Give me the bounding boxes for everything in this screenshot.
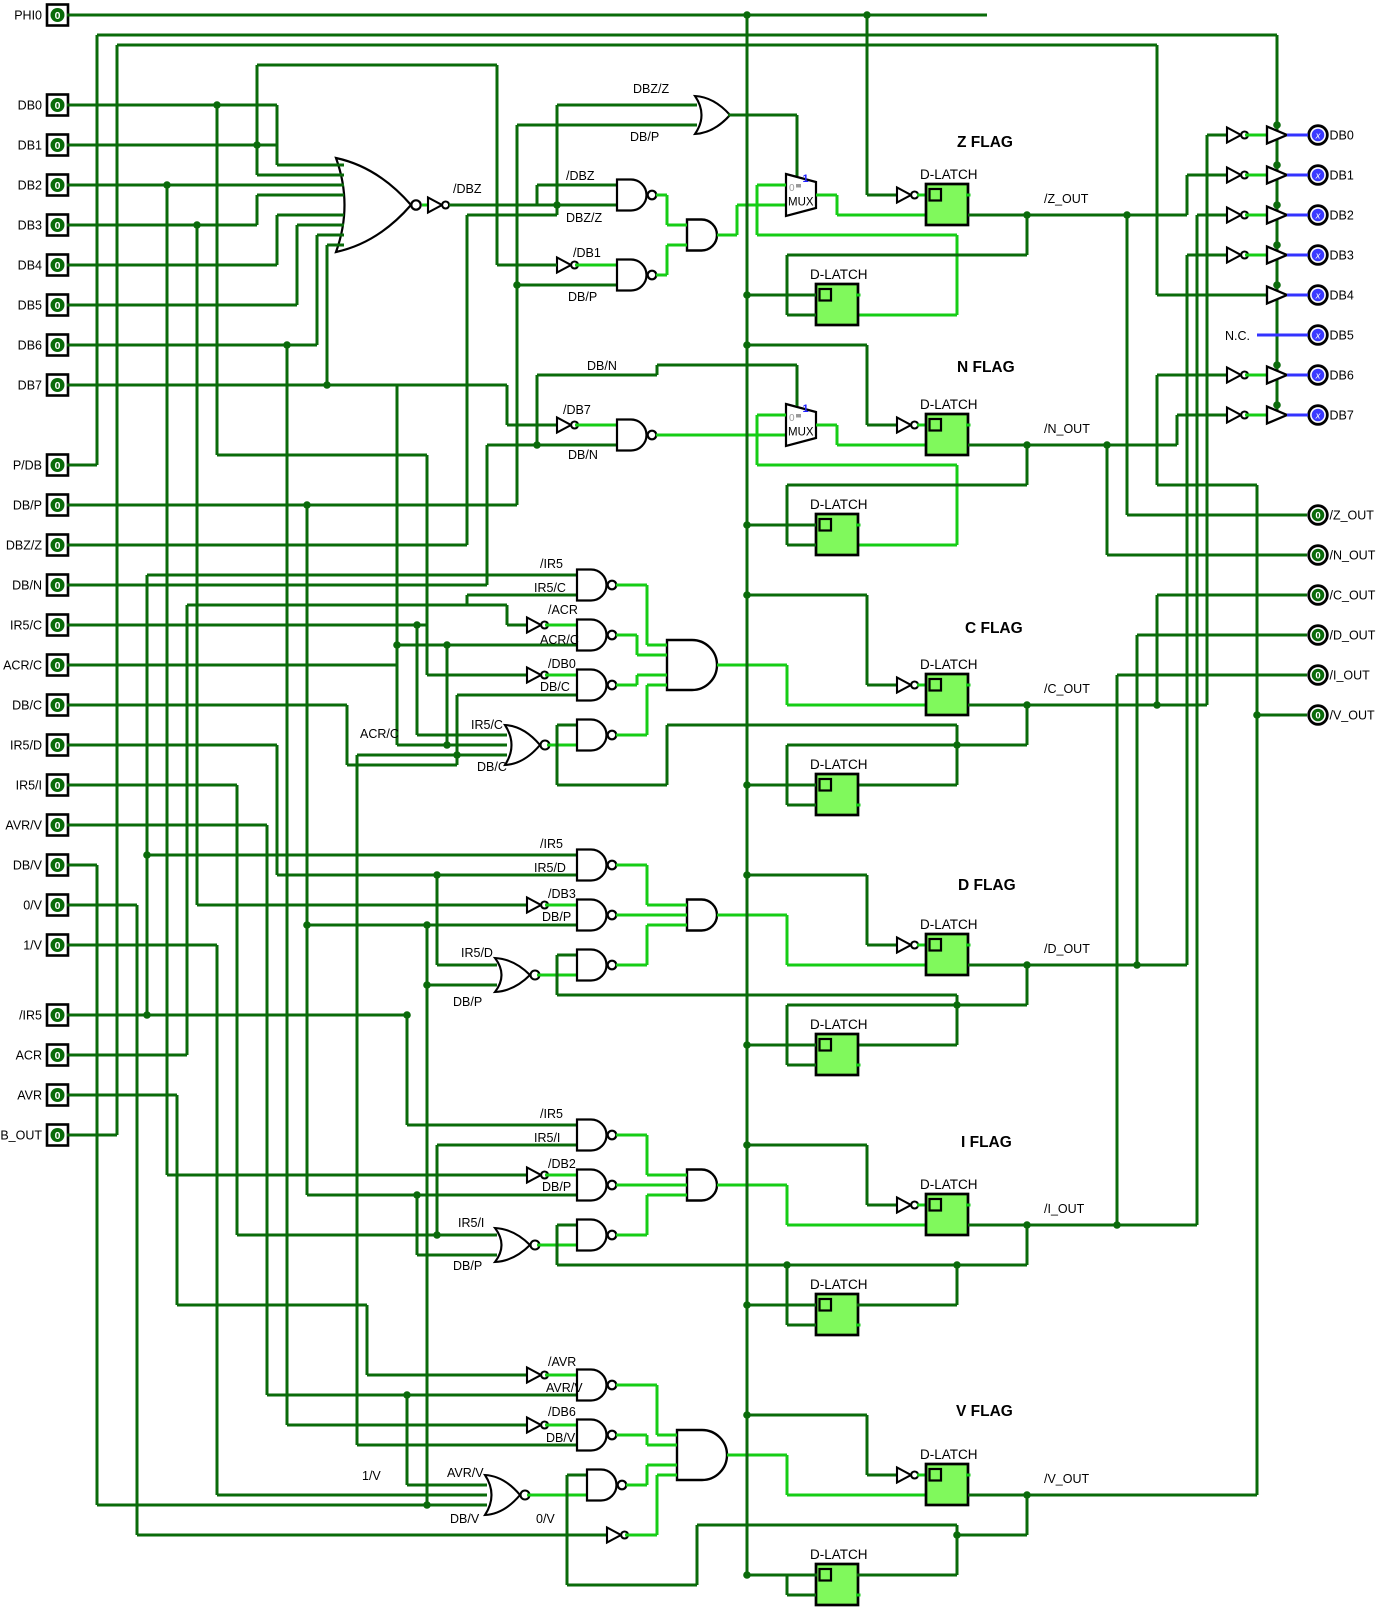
wire DB/C xyxy=(67,704,347,707)
input pin DBZ/Z xyxy=(6,535,68,556)
node Z pin branch xyxy=(1123,211,1131,219)
output pin DB3 xyxy=(1309,246,1354,265)
wire AVR row2 xyxy=(177,1304,367,1307)
svg-text:/AVR: /AVR xyxy=(548,1355,576,1369)
tri-state buffer output buffer DB xyxy=(1267,247,1287,264)
svg-text:/DBZ: /DBZ xyxy=(453,182,482,196)
NOR gate U-V3 NOR xyxy=(485,1475,520,1515)
svg-text:D-LATCH: D-LATCH xyxy=(920,1447,978,1462)
svg-text:0: 0 xyxy=(55,180,61,192)
input pin 1/V xyxy=(23,935,68,956)
svg-text:0: 0 xyxy=(55,460,61,472)
wire AVR to inv xyxy=(367,1374,527,1377)
wire V loop riser xyxy=(566,1475,569,1585)
node trunk Z2D xyxy=(743,291,751,299)
wire AND in1 xyxy=(647,904,687,907)
wire Z MUX select xyxy=(796,115,799,176)
tri-state buffer output buffer DB xyxy=(1267,287,1287,304)
node DB7 branch xyxy=(323,381,331,389)
input pin PHI0 xyxy=(14,5,68,26)
wire 1/V riser xyxy=(216,945,219,1495)
svg-text:/V_OUT: /V_OUT xyxy=(1044,1472,1090,1486)
wire xyxy=(656,1475,659,1535)
wire D latch2 out xyxy=(857,1044,957,1047)
wire C fb row xyxy=(787,744,1027,747)
wire DB/C rise xyxy=(456,695,459,765)
input pin DB5 xyxy=(18,295,68,316)
output pin DB0 xyxy=(1309,126,1354,145)
wire NOR in2 row xyxy=(397,744,507,747)
wire DB7 inv in xyxy=(1177,414,1227,417)
wire xyxy=(836,425,839,445)
svg-text:/DBZ: /DBZ xyxy=(566,169,595,183)
svg-text:V FLAG: V FLAG xyxy=(956,1403,1013,1420)
wire I NANDa out xyxy=(616,1134,647,1137)
svg-text:DB/N: DB/N xyxy=(568,448,598,462)
node DB2 branch xyxy=(163,181,171,189)
input pin IR5/I xyxy=(16,775,68,796)
wire xyxy=(646,865,649,905)
wire DB5 xyxy=(67,304,297,307)
wire D fb riser xyxy=(786,1005,789,1065)
wire NOR out xyxy=(547,744,577,747)
svg-text:AVR: AVR xyxy=(17,1089,42,1103)
svg-text:ACR/C: ACR/C xyxy=(540,633,579,647)
wire N clock row xyxy=(747,344,867,347)
wire AVR xyxy=(67,1094,177,1097)
wire V latch EN xyxy=(787,1494,926,1497)
wire C clock riser xyxy=(866,595,869,685)
node trunk N xyxy=(743,341,751,349)
wire NAND1 in1 xyxy=(537,184,617,187)
node enable tap xyxy=(1273,281,1281,289)
wire N hold riser2 xyxy=(956,465,959,545)
wire V NANDb out xyxy=(616,1434,647,1437)
wire DB0 to NOR xyxy=(276,105,279,165)
wire NAND-d in1 xyxy=(557,954,577,957)
wire buffer to pin xyxy=(1287,214,1308,217)
node D pin branch xyxy=(1133,961,1141,969)
svg-text:0: 0 xyxy=(55,700,61,712)
D-LATCH N2 xyxy=(810,497,868,555)
wire DB/C drop xyxy=(346,705,349,765)
wire 0/V out xyxy=(625,1534,657,1537)
svg-text:IR5/I: IR5/I xyxy=(16,779,42,793)
inverter output inverter DB xyxy=(1227,408,1241,423)
wire NOR8 input stub xyxy=(337,164,344,167)
wire DBZ/Z to NAND xyxy=(557,204,617,207)
wire xyxy=(786,1455,789,1495)
NOR gate U-I3 NOR xyxy=(495,1228,530,1262)
wire IR5/D drop xyxy=(276,745,279,875)
wire xyxy=(646,1465,649,1485)
wire DB0 riser xyxy=(216,105,219,455)
wire DB2 xyxy=(67,184,337,187)
wire OR in1 xyxy=(557,104,697,107)
svg-text:0/V: 0/V xyxy=(23,899,42,913)
svg-text:DB7: DB7 xyxy=(18,379,42,393)
wire DB2 inv in xyxy=(1197,214,1227,217)
wire N hold row xyxy=(757,464,957,467)
wire inv to buffer xyxy=(1245,174,1267,177)
svg-text:0: 0 xyxy=(789,413,795,424)
wire D latch2 EN xyxy=(787,1064,816,1067)
wire V latch2 EN xyxy=(787,1594,816,1597)
NAND gate U-I4 hold NAND xyxy=(577,1220,607,1251)
wire IR5 link xyxy=(436,1145,439,1235)
wire DB7 to inv xyxy=(507,424,557,427)
svg-text:0: 0 xyxy=(55,900,61,912)
node C pin branch xyxy=(1153,701,1161,709)
svg-text:0: 0 xyxy=(55,380,61,392)
wire DB/N sel jog xyxy=(537,374,657,377)
wire I latch EN xyxy=(787,1224,926,1227)
node N fb xyxy=(1023,441,1031,449)
wire IR5/C jog row xyxy=(187,604,507,607)
svg-text:/Z_OUT: /Z_OUT xyxy=(1044,192,1089,206)
wire V latch2 D row xyxy=(747,1574,817,1577)
wire I latch2 out xyxy=(857,1304,957,1307)
AND gate U-D5 AND xyxy=(687,900,717,931)
wire DBZ/Z riser xyxy=(466,215,469,545)
wire xyxy=(666,195,669,225)
svg-text:DB/P: DB/P xyxy=(542,910,571,924)
NAND gate U-V1 /AVR&AVR/V xyxy=(577,1370,607,1401)
wire OR-in riser xyxy=(556,105,559,215)
wire inv to buffer xyxy=(1245,414,1267,417)
wire /N_OUT row xyxy=(968,444,1177,447)
wire V fb drop xyxy=(1026,1495,1029,1535)
wire AND in1 xyxy=(647,1174,687,1177)
svg-text:IR5/C: IR5/C xyxy=(534,581,566,595)
node DB/P-D xyxy=(303,921,311,929)
svg-text:AVR/V: AVR/V xyxy=(447,1466,484,1480)
D-LATCH Z2 xyxy=(810,267,868,325)
wire DB1 link riser xyxy=(256,65,259,175)
wire IR5/C to NOR xyxy=(416,625,419,735)
wire B_OUT xyxy=(67,1134,117,1137)
svg-text:IR5/C: IR5/C xyxy=(471,718,503,732)
node DB0 branch xyxy=(213,101,221,109)
NAND gate U-C3 /DB0&DB/C xyxy=(577,670,607,701)
wire IR5/D xyxy=(67,744,277,747)
node trunk V2D xyxy=(743,1571,751,1579)
wire DB/P lower riser xyxy=(306,505,309,1195)
wire /Z_OUT pin row xyxy=(1127,514,1307,517)
wire DBZ/Z xyxy=(67,544,467,547)
NAND gate U-Z1 /DBZ&DBZ/Z xyxy=(617,180,646,211)
wire DB4 to NOR xyxy=(276,215,279,265)
output pin DB5 xyxy=(1309,326,1354,345)
output pin /Z_OUT xyxy=(1309,506,1375,525)
node PHI0/Z-clock xyxy=(863,11,871,19)
wire inv to buffer xyxy=(1245,214,1267,217)
output pin DB7 xyxy=(1309,406,1354,425)
wire DB/P riser xyxy=(516,125,519,505)
AND gate U-Z3 AND xyxy=(687,220,717,251)
wire NOR8 input stub xyxy=(337,244,344,247)
wire N latch2 EN xyxy=(787,544,816,547)
input pin DB/C xyxy=(12,695,68,716)
node I fb xyxy=(1023,1221,1031,1229)
wire to C inverter xyxy=(867,684,897,687)
wire NOR8 input stub xyxy=(337,174,344,177)
svg-text:DB/V: DB/V xyxy=(450,1512,480,1526)
wire C latch EN xyxy=(787,704,926,707)
wire D AND out xyxy=(717,914,787,917)
svg-text:/V_OUT: /V_OUT xyxy=(1330,709,1376,723)
wire /IR5 I row xyxy=(407,1124,577,1127)
wire DB5 to NOR xyxy=(296,225,299,305)
wire DB7 jog xyxy=(506,385,509,425)
wire xyxy=(836,195,839,215)
svg-text:/D_OUT: /D_OUT xyxy=(1044,942,1090,956)
svg-text:0/V: 0/V xyxy=(536,1512,555,1526)
wire PHI0 row xyxy=(67,14,987,17)
wire to D inverter xyxy=(867,944,897,947)
svg-text:DB/N: DB/N xyxy=(12,579,42,593)
wire AVR/V to NOR xyxy=(407,1484,487,1487)
wire NAND1 out xyxy=(656,194,667,197)
wire ACR/C row xyxy=(397,644,577,647)
svg-text:0: 0 xyxy=(55,780,61,792)
node /IR5 branch xyxy=(143,1011,151,1019)
wire N latch EN xyxy=(837,444,926,447)
wire NOR in4 xyxy=(257,194,337,197)
wire AND in3 xyxy=(637,674,667,677)
svg-text:DB1: DB1 xyxy=(18,139,42,153)
svg-text:D-LATCH: D-LATCH xyxy=(810,1017,868,1032)
wire IR5/I xyxy=(67,784,237,787)
node enable tap xyxy=(1273,201,1281,209)
wire OR in2 xyxy=(517,124,697,127)
wire buffer to pin xyxy=(1287,374,1308,377)
node I pin branch xyxy=(1113,1221,1121,1229)
node enable tap xyxy=(1273,241,1281,249)
wire AND in1 xyxy=(647,644,667,647)
wire xyxy=(786,1185,789,1225)
svg-text:ACR/C: ACR/C xyxy=(360,727,399,741)
wire /ACR xyxy=(545,624,577,627)
wire AVR riser2 xyxy=(366,1305,369,1375)
wire latch EN xyxy=(837,214,926,217)
svg-text:0: 0 xyxy=(1315,511,1320,522)
svg-text:IR5/D: IR5/D xyxy=(10,739,42,753)
wire DB/V xyxy=(67,864,97,867)
wire I NOR in1 row xyxy=(237,1234,497,1237)
input pin DB1 xyxy=(18,135,68,156)
svg-text:IR5/D: IR5/D xyxy=(461,946,493,960)
wire C loop riser xyxy=(556,725,559,785)
wire C loop row xyxy=(557,784,667,787)
wire xyxy=(646,585,649,645)
wire DB0 to C xyxy=(426,455,429,675)
wire DB2 to inv xyxy=(167,1174,527,1177)
wire C NANDb out xyxy=(616,634,637,637)
svg-text:/I_OUT: /I_OUT xyxy=(1044,1202,1085,1216)
wire Z fb riser xyxy=(786,255,789,315)
wire /DB6 xyxy=(545,1424,577,1427)
node trunk D xyxy=(743,871,751,879)
node I link node xyxy=(953,1261,961,1269)
svg-text:/D_OUT: /D_OUT xyxy=(1330,629,1376,643)
wire Z fb row xyxy=(787,254,1027,257)
input pin /IR5 xyxy=(19,1005,68,1026)
node C link node xyxy=(953,741,961,749)
svg-text:0: 0 xyxy=(55,1130,61,1142)
wire NOR in5 xyxy=(277,214,337,217)
wire xyxy=(636,635,639,655)
wire DB/P jog xyxy=(426,925,429,1505)
wire AND in1 xyxy=(657,1434,677,1437)
wire DB/V row xyxy=(357,1444,577,1447)
svg-text:D-LATCH: D-LATCH xyxy=(810,1277,868,1292)
input pin DB/P xyxy=(13,495,68,516)
node DB/P branch xyxy=(303,501,311,509)
wire inv to buffer xyxy=(1245,134,1267,137)
node trunk C xyxy=(743,591,751,599)
inverter /DB3 inverter xyxy=(527,898,541,913)
tri-state buffer output buffer DB xyxy=(1267,367,1287,384)
MUX U-Z4 xyxy=(786,174,816,216)
wire /D to pin xyxy=(1136,635,1139,965)
NAND gate U-Z2 /DB1&DB/P xyxy=(617,260,646,291)
wire /N to pin xyxy=(1106,445,1109,555)
wire NOR in8 xyxy=(327,244,337,247)
wire V link row xyxy=(1157,484,1257,487)
wire DB/P to NAND2 xyxy=(517,284,617,287)
wire B_OUT riser right xyxy=(1156,45,1159,295)
wire D fb drop xyxy=(1026,965,1029,1005)
NAND gate U-C1 /IR5&IR5/C xyxy=(577,570,607,601)
svg-text:IR5/C: IR5/C xyxy=(10,619,42,633)
wire hold riser2 xyxy=(956,235,959,315)
wire DB1 to inv xyxy=(497,264,557,267)
wire D clock row xyxy=(747,874,867,877)
wire N hold riser xyxy=(756,415,759,465)
svg-text:B_OUT: B_OUT xyxy=(0,1129,42,1143)
wire I to DB2 xyxy=(1196,215,1199,1225)
wire DB4 buffer in xyxy=(1157,294,1267,297)
wire NOR in1 xyxy=(277,164,337,167)
svg-text:DB/V: DB/V xyxy=(546,1431,576,1445)
svg-text:DB/V: DB/V xyxy=(13,859,43,873)
svg-text:DB/C: DB/C xyxy=(477,760,507,774)
inverter /DB1 inverter xyxy=(557,258,571,273)
wire DB/P to NOR xyxy=(417,1254,497,1257)
svg-text:0: 0 xyxy=(55,1090,61,1102)
NAND gate U-V2 /DB6&DB/V xyxy=(577,1420,607,1451)
inverter I latch inverter xyxy=(897,1198,911,1213)
svg-text:D-LATCH: D-LATCH xyxy=(810,497,868,512)
D-LATCH N1 xyxy=(920,397,978,455)
NAND gate U-N1 /DB7&DB/N xyxy=(617,420,646,451)
wire xyxy=(646,685,649,735)
svg-text:/DB3: /DB3 xyxy=(548,887,576,901)
wire NOR3 riser xyxy=(356,755,359,1445)
wire /DB1 xyxy=(575,264,617,267)
wire /Z_OUT row xyxy=(968,214,1187,217)
svg-text:DBZ/Z: DBZ/Z xyxy=(566,211,602,225)
wire /IR5 C row xyxy=(147,574,577,577)
node enable tap xyxy=(1273,361,1281,369)
wire to N inverter xyxy=(867,424,897,427)
svg-text:/C_OUT: /C_OUT xyxy=(1044,682,1090,696)
node IR5 node xyxy=(403,1011,411,1019)
inverter 0/V inverter xyxy=(607,1528,621,1543)
node IR5/C branch xyxy=(413,621,421,629)
wire DB0 jog row xyxy=(217,454,427,457)
svg-text:0: 0 xyxy=(55,620,61,632)
wire I NANDb out xyxy=(616,1184,687,1187)
node I fb node xyxy=(783,1261,791,1269)
svg-text:DB6: DB6 xyxy=(1330,369,1354,383)
svg-text:0: 0 xyxy=(55,860,61,872)
wire D to DB3 xyxy=(1186,255,1189,965)
output pin /V_OUT xyxy=(1309,706,1375,725)
input pin IR5/C xyxy=(10,615,68,636)
wire N MUX out xyxy=(816,424,837,427)
wire D loop link xyxy=(956,995,959,1045)
wire /V riser xyxy=(1256,485,1259,1495)
svg-text:/ACR: /ACR xyxy=(548,603,578,617)
wire D NANDa out xyxy=(616,864,647,867)
wire D loop row xyxy=(557,994,957,997)
wire buffer to pin xyxy=(1287,414,1308,417)
wire DB6 riser xyxy=(286,345,289,1425)
node DB/P-I2 xyxy=(413,1191,421,1199)
wire DB/V to NOR xyxy=(97,1504,487,1507)
wire to V inverter xyxy=(867,1474,897,1477)
wire V AND out xyxy=(727,1454,787,1457)
svg-text:IR5/D: IR5/D xyxy=(534,861,566,875)
NAND gate U-I1 /IR5&IR5/I xyxy=(577,1120,607,1151)
svg-text:IR5/I: IR5/I xyxy=(534,1131,560,1145)
svg-text:N.C.: N.C. xyxy=(1225,329,1250,343)
wire C latch2 D xyxy=(747,784,816,787)
wire D clock riser xyxy=(866,875,869,945)
tri-state buffer output buffer DB xyxy=(1267,207,1287,224)
wire NOR out xyxy=(537,974,577,977)
wire hold riser xyxy=(756,185,759,235)
wire P/DB enable row xyxy=(97,34,1277,37)
wire DB/N riser xyxy=(486,445,489,585)
input pin DB0 xyxy=(18,95,68,116)
wire ACR xyxy=(67,1054,187,1057)
wire V NANDd out xyxy=(626,1484,647,1487)
wire /I_OUT pin row xyxy=(1117,674,1307,677)
svg-text:DB2: DB2 xyxy=(1330,209,1354,223)
inverter /DB0 inverter xyxy=(527,668,541,683)
wire NAND-d in1 xyxy=(557,1224,577,1227)
svg-text:DB/P: DB/P xyxy=(630,130,659,144)
wire DB/N xyxy=(67,584,487,587)
wire AND in3 xyxy=(647,924,687,927)
svg-text:DB/P: DB/P xyxy=(568,290,597,304)
node ACR/C-d xyxy=(443,641,451,649)
svg-text:MUX: MUX xyxy=(788,197,814,209)
wire NAND-d in1 xyxy=(557,724,577,727)
wire buffer to pin xyxy=(1287,134,1308,137)
wire N to DB7 xyxy=(1176,415,1179,445)
wire DBZ stub xyxy=(422,204,428,207)
wire DB/P to NOR xyxy=(427,984,497,987)
node DB/P-x xyxy=(423,921,431,929)
wire NOR in2 xyxy=(257,174,337,177)
svg-text:DB/P: DB/P xyxy=(453,995,482,1009)
NOR-8 gate DB0-7 xyxy=(336,158,411,252)
D-LATCH V1 xyxy=(920,1447,978,1505)
